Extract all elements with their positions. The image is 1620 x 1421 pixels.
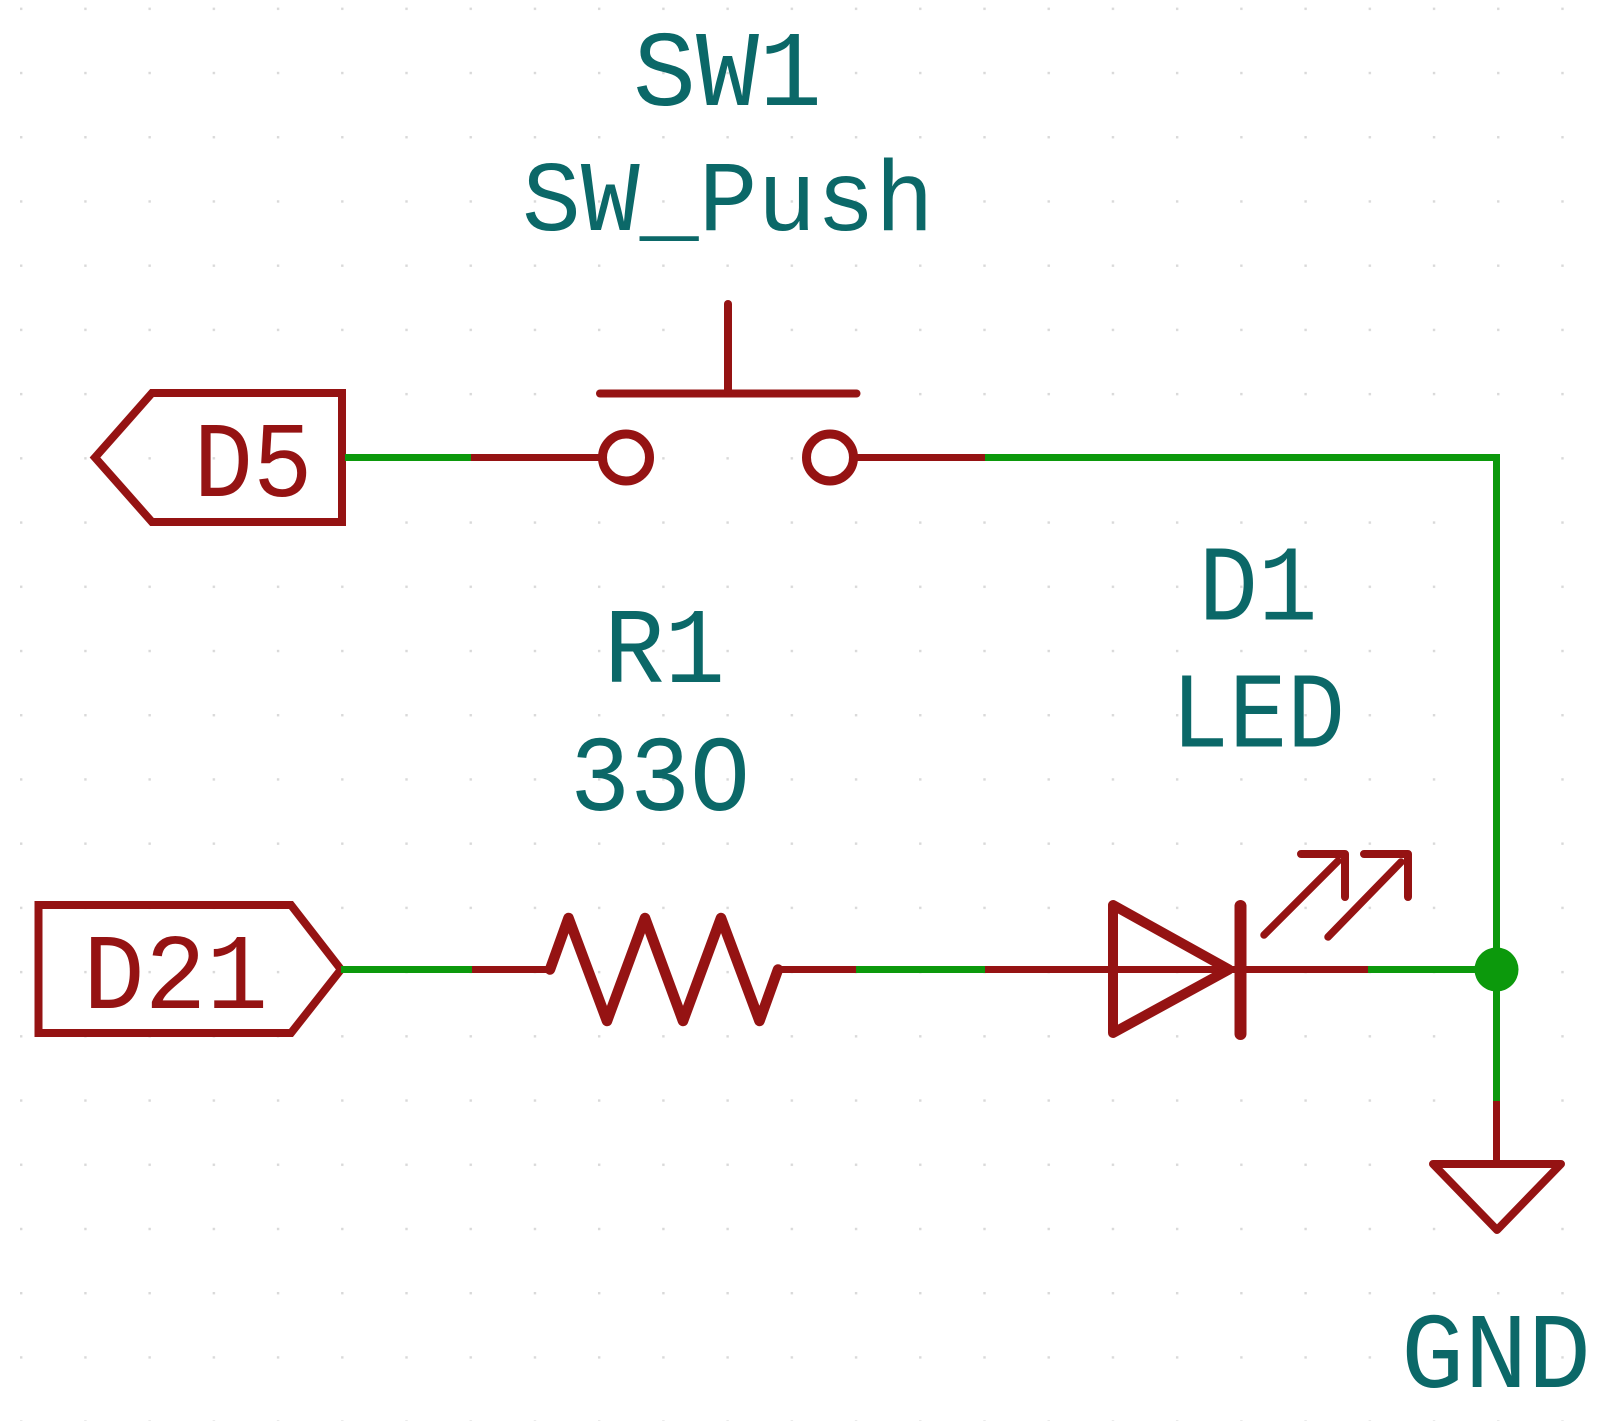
actuator stem [724, 304, 732, 394]
contact circle right [807, 434, 854, 481]
pin 2 [778, 966, 856, 973]
actuator bar [600, 390, 857, 398]
wire switch to corner and down to junction [985, 458, 1497, 970]
svg-text:GND: GND [1401, 1299, 1591, 1420]
wire junction to ground pin [1493, 970, 1500, 1102]
light arrow 2 head [1364, 854, 1408, 897]
resistor R1 [472, 594, 856, 1021]
zigzag body [550, 918, 778, 1021]
hierarchical label D5 [95, 393, 342, 529]
hierarchical label D21 [39, 905, 342, 1041]
wire resistor to LED pin [856, 966, 985, 973]
svg-text:33O: 33O [570, 722, 750, 843]
cathode bar [1235, 906, 1247, 1034]
pin 1 [471, 454, 599, 461]
pin line through body [985, 966, 1368, 973]
LED D1 [985, 532, 1408, 1035]
svg-text:SW_Push: SW_Push [522, 148, 934, 261]
junction [1475, 948, 1519, 992]
svg-text:D1: D1 [1199, 532, 1318, 653]
contact circle left [603, 434, 650, 481]
svg-text:D5: D5 [194, 408, 313, 529]
ground pin [1493, 1101, 1500, 1164]
anode triangle [1113, 905, 1229, 1033]
svg-text:LED: LED [1171, 659, 1345, 780]
wire D21 to resistor pin [341, 966, 472, 973]
light arrow 1 shaft [1264, 861, 1338, 935]
switch SW1 [471, 17, 985, 481]
pin 1 [472, 966, 550, 973]
svg-text:D21: D21 [83, 920, 268, 1041]
svg-text:R1: R1 [604, 594, 725, 715]
ground triangle [1433, 1164, 1561, 1230]
wire D5 to switch pin [345, 454, 471, 461]
power symbol GND [1401, 1101, 1591, 1420]
svg-text:SW1: SW1 [633, 17, 822, 138]
wire LED to junction [1368, 966, 1497, 973]
pin 2 [857, 454, 985, 461]
light arrow 1 head [1301, 854, 1345, 897]
light arrow 2 shaft [1328, 862, 1401, 937]
